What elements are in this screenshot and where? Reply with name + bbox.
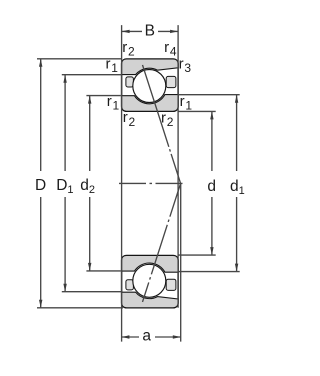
dimension B line <box>122 30 142 32</box>
svg-text:D1: D1 <box>56 177 73 196</box>
dimension d2 line <box>89 96 91 171</box>
extension line D1 top <box>62 74 122 76</box>
svg-text:r1: r1 <box>180 93 193 113</box>
outer ring <box>122 59 179 75</box>
svg-text:D: D <box>35 177 46 194</box>
svg-text:r3: r3 <box>179 55 192 75</box>
dimension d1 line <box>236 95 238 171</box>
dimension d line <box>211 111 213 171</box>
extension line d1 bottom <box>178 271 240 273</box>
extension line D bottom <box>37 307 123 309</box>
svg-text:d2: d2 <box>80 177 95 196</box>
center line axis <box>119 182 183 184</box>
cage left <box>126 77 133 87</box>
inner ring <box>122 95 179 112</box>
cage right <box>166 76 176 87</box>
extension line d bottom <box>178 254 216 256</box>
ball <box>133 70 166 103</box>
contact angle line top <box>143 65 181 183</box>
svg-text:r2: r2 <box>123 109 136 129</box>
extension line d2 top <box>86 95 121 97</box>
svg-text:r4: r4 <box>164 39 177 59</box>
svg-text:a: a <box>142 327 151 344</box>
extension line d2 bottom <box>86 270 121 272</box>
svg-text:r2: r2 <box>161 109 174 129</box>
bearing section (top half, mirrored below) <box>122 59 179 111</box>
svg-text:r2: r2 <box>122 39 135 59</box>
contact angle line bottom <box>143 183 181 302</box>
bearing outline <box>122 59 179 111</box>
bearing section mirrored (bottom half) <box>122 255 179 307</box>
svg-text:d1: d1 <box>230 178 245 197</box>
extension line a right vertical <box>180 183 182 341</box>
extension line d1 top <box>178 94 240 96</box>
extension line right vertical <box>177 25 179 308</box>
dimension D line <box>40 59 42 171</box>
extension line D1 bottom <box>62 291 122 293</box>
dimension a line <box>121 336 139 338</box>
extension line d top <box>178 110 216 112</box>
extension line D top <box>37 58 122 60</box>
svg-text:d: d <box>207 178 216 195</box>
svg-text:B: B <box>145 23 155 40</box>
extension line left vertical <box>121 25 123 342</box>
dimension D1 line <box>64 75 66 171</box>
